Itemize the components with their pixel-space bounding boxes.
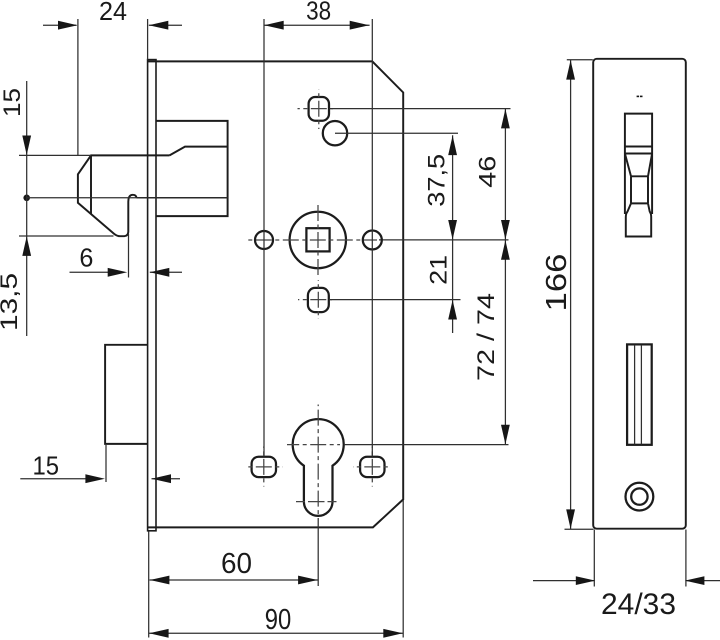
svg-text:24/33: 24/33	[601, 588, 676, 621]
extension line x=147.6 (faceplate, for 24)	[147, 19, 149, 60]
svg-text:166: 166	[541, 254, 573, 312]
euro profile cylinder hole	[287, 405, 344, 518]
dimension 166 (right view height)	[541, 60, 594, 530]
latch bolt front view	[625, 114, 652, 237]
two small marking dots on plate	[637, 96, 643, 98]
faceplate (side view)	[148, 60, 156, 531]
svg-text:72 / 74: 72 / 74	[473, 293, 500, 381]
dimension line column x=505.4 (46 and 72/74)	[473, 109, 510, 445]
extension line from cylinder centre down to 60 dimension	[317, 518, 319, 586]
hole: top barrel hole	[298, 90, 334, 130]
deadbolt head (protruding left, lower)	[105, 345, 148, 444]
bottom-left barrel screw hole	[245, 447, 283, 487]
extension line case right bottom (for 90)	[402, 500, 404, 638]
hole: circle d24	[323, 121, 347, 145]
dimension 38 (top)	[264, 0, 370, 30]
extension line faceplate bottom-left (for 60/90)	[148, 532, 150, 638]
screw hole circle left (38 row)	[255, 231, 273, 249]
leader line from lower barrel hole to 21 dimension	[330, 299, 461, 301]
extension line x=372.3 (38 right, through screw holes)	[371, 19, 373, 457]
dimension 15 (deadbolt protrusion, lower left)	[20, 445, 180, 483]
leader line from top barrel hole to 46 dimension	[330, 108, 511, 110]
svg-text:60: 60	[221, 548, 252, 580]
leader line from circle to 37,5 dimension	[335, 132, 458, 134]
hole: lower barrel hole	[298, 280, 332, 319]
dimension 13,5 (left, vertical)	[0, 198, 114, 336]
leader line from follower center to right dimensions	[379, 239, 509, 241]
svg-text:90: 90	[265, 604, 292, 636]
dimension 60 (bottom)	[150, 548, 319, 585]
latch centerline with dot terminator	[23, 195, 227, 202]
screw hole on faceplate front	[626, 483, 654, 511]
leader line from cylinder center to 72/74 dimension	[344, 444, 509, 446]
dimension 15 (upper left, vertical)	[0, 81, 91, 198]
dimension 24/33 (faceplate width)	[533, 530, 720, 622]
faceplate front outline	[593, 59, 686, 529]
svg-text:24: 24	[99, 0, 127, 26]
dimension 24 (top left)	[43, 0, 182, 30]
bottom-right barrel screw hole	[353, 447, 391, 487]
svg-text:13,5: 13,5	[0, 273, 23, 331]
svg-text:46: 46	[474, 156, 501, 188]
dimension 90 (bottom)	[149, 604, 404, 638]
lock case outline	[148, 61, 404, 527]
screw hole circle right (38 row)	[363, 231, 382, 250]
extension line x=77.9 (latch face, for 24)	[77, 19, 79, 156]
dimension line column x=452.6 (37,5 and 21)	[424, 135, 457, 333]
svg-text:6: 6	[79, 243, 93, 273]
follower square spindle hole	[246, 204, 377, 277]
svg-text:38: 38	[306, 0, 331, 26]
svg-text:21: 21	[426, 255, 453, 285]
extension line x=264 (38 left, through screw holes)	[263, 19, 265, 457]
latch bolt tail inside case	[156, 121, 228, 216]
latch bolt head (beveled, protruding left)	[78, 155, 170, 236]
dimension 6 (latch guard protrusion)	[70, 234, 183, 278]
deadbolt slot front view	[627, 344, 652, 444]
svg-text:37,5: 37,5	[424, 154, 451, 207]
svg-text:15: 15	[0, 88, 26, 117]
svg-text:15: 15	[32, 450, 59, 480]
